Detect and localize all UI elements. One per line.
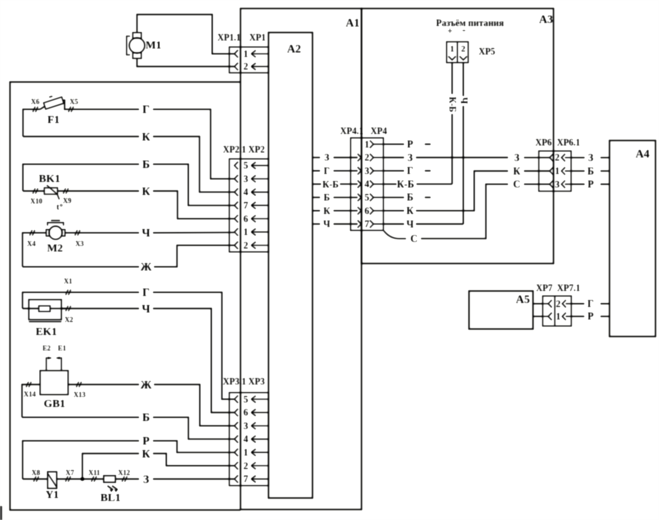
svg-text:К-Б: К-Б <box>322 180 338 190</box>
svg-text:XP3.1: XP3.1 <box>223 377 247 387</box>
svg-text:2: 2 <box>243 63 248 73</box>
svg-text:1: 1 <box>243 449 248 459</box>
svg-text:5: 5 <box>243 395 248 405</box>
svg-text:XP4.1: XP4.1 <box>340 126 364 136</box>
svg-text:7: 7 <box>365 220 370 230</box>
svg-text:7: 7 <box>243 202 248 212</box>
svg-text:XP6: XP6 <box>535 138 552 148</box>
svg-text:К: К <box>142 448 151 460</box>
svg-text:2: 2 <box>243 241 248 251</box>
svg-text:XP5: XP5 <box>479 47 496 57</box>
svg-text:К: К <box>323 207 330 217</box>
svg-text:X5: X5 <box>70 98 79 106</box>
svg-text:A2: A2 <box>287 44 301 56</box>
svg-text:X8: X8 <box>32 469 41 477</box>
svg-text:1: 1 <box>450 43 454 53</box>
svg-text:С: С <box>513 180 520 191</box>
svg-text:Р: Р <box>407 140 413 151</box>
svg-text:К: К <box>406 206 414 217</box>
svg-text:Б: Б <box>407 193 414 204</box>
svg-text:Г: Г <box>142 287 149 299</box>
svg-text:X9: X9 <box>63 197 72 205</box>
svg-text:Ч: Ч <box>406 219 414 230</box>
svg-text:7: 7 <box>243 475 248 485</box>
svg-text:З: З <box>588 153 593 164</box>
svg-text:E2: E2 <box>43 345 52 353</box>
svg-text:З: З <box>514 153 519 164</box>
svg-text:Б: Б <box>142 159 150 171</box>
svg-text:A5: A5 <box>516 294 530 306</box>
svg-text:5: 5 <box>243 162 248 172</box>
svg-text:З: З <box>143 474 149 486</box>
svg-text:BK1: BK1 <box>39 173 60 185</box>
svg-text:X10: X10 <box>30 198 43 206</box>
svg-text:Ж: Ж <box>140 262 152 274</box>
svg-text:Г: Г <box>407 166 413 177</box>
svg-text:2: 2 <box>555 154 560 164</box>
svg-text:З: З <box>407 153 412 164</box>
svg-text:2: 2 <box>556 300 561 310</box>
svg-text:5: 5 <box>365 194 370 204</box>
svg-text:Б: Б <box>324 194 330 204</box>
svg-text:XP7: XP7 <box>536 283 553 293</box>
svg-text:1: 1 <box>243 50 248 60</box>
svg-text:6: 6 <box>365 207 370 217</box>
svg-text:X2: X2 <box>65 316 74 324</box>
svg-text:1: 1 <box>555 167 560 177</box>
svg-text:X3: X3 <box>75 240 84 248</box>
svg-text:1: 1 <box>556 313 561 323</box>
svg-text:X4: X4 <box>27 240 36 248</box>
svg-text:X11: X11 <box>88 469 100 477</box>
svg-text:Разъём питания: Разъём питания <box>436 19 504 29</box>
svg-text:A4: A4 <box>635 149 649 161</box>
svg-text:2: 2 <box>243 462 248 472</box>
svg-text:3: 3 <box>365 167 370 177</box>
svg-text:Р: Р <box>587 312 593 323</box>
svg-text:A3: A3 <box>539 14 553 26</box>
svg-text:o: o <box>60 203 63 209</box>
svg-text:4: 4 <box>243 188 248 198</box>
svg-text:Ч: Ч <box>323 220 330 230</box>
svg-text:X7: X7 <box>66 469 75 477</box>
svg-text:Ч: Ч <box>459 97 469 104</box>
svg-text:Р: Р <box>588 180 594 191</box>
svg-text:X12: X12 <box>118 469 131 477</box>
svg-text:X1: X1 <box>64 278 73 286</box>
svg-text:1: 1 <box>243 228 248 238</box>
svg-text:XP7.1: XP7.1 <box>557 283 581 293</box>
svg-text:Г: Г <box>324 167 330 177</box>
svg-text:С: С <box>410 234 417 245</box>
svg-text:Б: Б <box>142 412 150 424</box>
svg-text:M2: M2 <box>47 243 63 255</box>
svg-text:X6: X6 <box>31 98 40 106</box>
svg-text:XP2.1: XP2.1 <box>223 145 247 155</box>
svg-text:1: 1 <box>365 140 370 150</box>
svg-text:4: 4 <box>365 180 370 190</box>
svg-text:E1: E1 <box>58 345 67 353</box>
svg-text:К: К <box>142 186 151 198</box>
svg-text:XP6.1: XP6.1 <box>557 138 581 148</box>
svg-text:Ч: Ч <box>142 228 151 240</box>
svg-text:A1: A1 <box>346 18 360 30</box>
svg-text:К: К <box>513 166 521 177</box>
svg-text:M1: M1 <box>146 40 162 52</box>
svg-text:4: 4 <box>243 435 248 445</box>
svg-text:Г: Г <box>142 104 149 116</box>
svg-text:XP3: XP3 <box>248 377 265 387</box>
svg-text:2: 2 <box>365 154 370 164</box>
svg-text:6: 6 <box>243 215 248 225</box>
svg-text:З: З <box>324 154 329 164</box>
svg-text:К: К <box>142 131 151 143</box>
svg-text:Б: Б <box>587 166 594 177</box>
svg-text:3: 3 <box>555 180 560 190</box>
svg-text:XP1: XP1 <box>249 33 266 43</box>
svg-text:2: 2 <box>461 43 465 53</box>
svg-text:X13: X13 <box>73 391 86 399</box>
svg-text:Р: Р <box>142 436 149 448</box>
svg-text:EK1: EK1 <box>36 326 57 338</box>
svg-text:XP2: XP2 <box>248 145 265 155</box>
svg-text:К-Б: К-Б <box>448 97 458 113</box>
svg-text:GB1: GB1 <box>44 398 65 410</box>
svg-text:6: 6 <box>243 409 248 419</box>
svg-text:BL1: BL1 <box>100 492 120 504</box>
svg-text:Ч: Ч <box>142 303 151 315</box>
svg-text:F1: F1 <box>47 114 59 126</box>
svg-text:XP4: XP4 <box>371 126 388 136</box>
svg-text:Г: Г <box>587 299 593 310</box>
svg-text:3: 3 <box>243 422 248 432</box>
svg-text:X14: X14 <box>24 390 37 398</box>
svg-text:3: 3 <box>243 175 248 185</box>
svg-text:Ж: Ж <box>140 379 152 391</box>
svg-text:К-Б: К-Б <box>397 179 415 190</box>
svg-text:XP1.1: XP1.1 <box>217 33 241 43</box>
svg-text:Y1: Y1 <box>45 489 58 501</box>
